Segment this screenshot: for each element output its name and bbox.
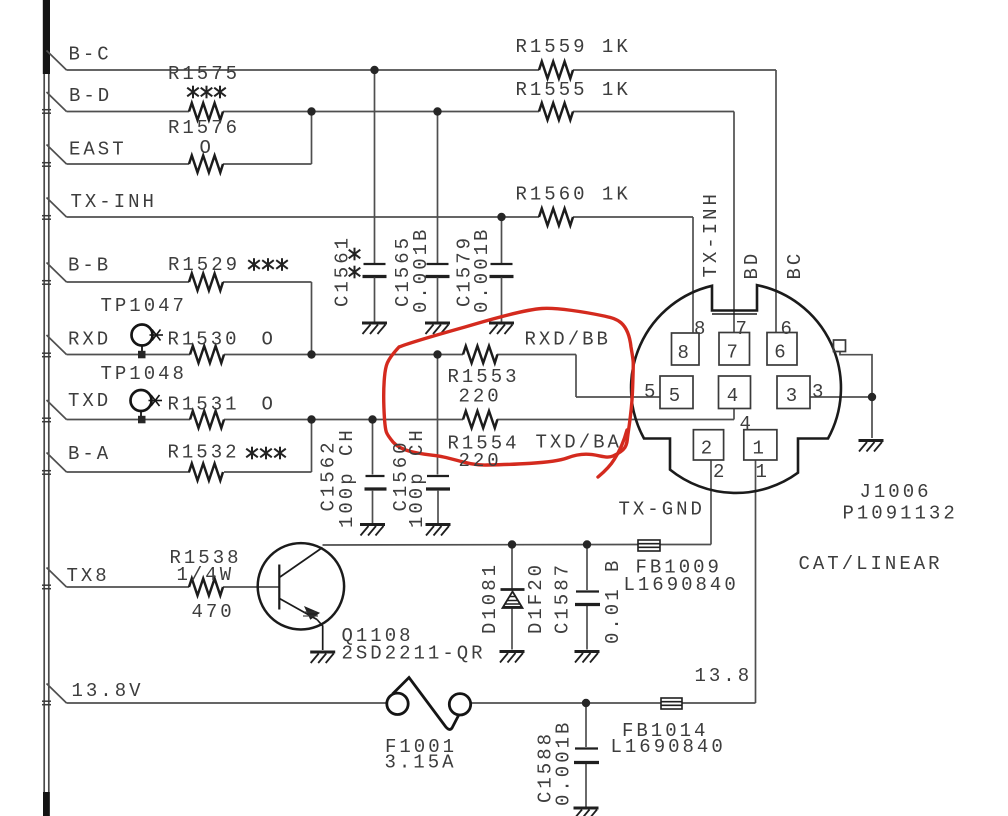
svg-text:R1555 1K: R1555 1K — [516, 79, 631, 101]
svg-text:O: O — [200, 137, 214, 159]
svg-text:B-C: B-C — [69, 44, 112, 66]
svg-text:1: 1 — [756, 461, 770, 483]
svg-text:TX-GND: TX-GND — [619, 499, 705, 521]
svg-text:1: 1 — [753, 438, 767, 460]
svg-text:R1575: R1575 — [168, 63, 240, 85]
svg-text:5: 5 — [644, 381, 658, 403]
svg-text:D1F20: D1F20 — [525, 562, 547, 634]
svg-text:C1587: C1587 — [552, 562, 574, 634]
svg-text:RXD/BB: RXD/BB — [525, 329, 611, 351]
svg-text:4: 4 — [727, 385, 741, 407]
svg-text:R1532: R1532 — [168, 442, 240, 464]
svg-text:13.8V: 13.8V — [72, 680, 144, 702]
svg-text:O: O — [262, 394, 276, 416]
svg-text:8: 8 — [694, 318, 708, 340]
svg-text:7: 7 — [727, 342, 741, 364]
svg-text:220: 220 — [459, 450, 502, 472]
svg-text:2: 2 — [701, 438, 715, 460]
svg-text:100p CH: 100p CH — [406, 427, 428, 528]
svg-text:2: 2 — [713, 461, 727, 483]
svg-text:7: 7 — [736, 318, 750, 340]
svg-text:R1531: R1531 — [168, 394, 240, 416]
svg-text:B-D: B-D — [69, 85, 112, 107]
svg-text:L1690840: L1690840 — [611, 736, 726, 758]
svg-text:3: 3 — [786, 385, 800, 407]
svg-text:5: 5 — [669, 385, 683, 407]
svg-text:1/4W: 1/4W — [177, 564, 235, 586]
svg-text:470: 470 — [192, 601, 235, 623]
svg-text:4: 4 — [740, 413, 754, 435]
svg-text:TX-INH: TX-INH — [71, 191, 157, 213]
svg-text:0.01 B: 0.01 B — [602, 558, 624, 644]
svg-text:0.001B: 0.001B — [471, 227, 493, 313]
svg-text:TP1047: TP1047 — [101, 295, 187, 317]
svg-text:B-B: B-B — [68, 255, 111, 277]
svg-text:8: 8 — [678, 342, 692, 364]
svg-text:3.15A: 3.15A — [385, 752, 457, 774]
svg-text:B-A: B-A — [68, 443, 111, 465]
svg-text:R1529: R1529 — [168, 254, 240, 276]
svg-text:0.001B: 0.001B — [553, 720, 575, 806]
svg-text:D1081: D1081 — [479, 562, 501, 634]
svg-text:BC: BC — [784, 251, 806, 280]
svg-text:6: 6 — [774, 342, 788, 364]
svg-text:P1091132: P1091132 — [843, 503, 958, 525]
svg-text:O: O — [262, 328, 276, 350]
svg-text:TXD/BA: TXD/BA — [536, 432, 622, 454]
svg-text:13.8: 13.8 — [695, 665, 753, 687]
svg-text:TX-INH: TX-INH — [700, 191, 722, 277]
svg-text:R1560 1K: R1560 1K — [516, 184, 631, 206]
svg-text:RXD: RXD — [68, 328, 111, 350]
svg-text:EAST: EAST — [69, 139, 127, 161]
svg-text:3: 3 — [812, 381, 826, 403]
svg-text:L1690840: L1690840 — [624, 574, 739, 596]
svg-text:C1561: C1561 — [332, 235, 354, 307]
svg-text:0.001B: 0.001B — [410, 227, 432, 313]
svg-text:CAT/LINEAR: CAT/LINEAR — [799, 553, 943, 575]
svg-text:R1559 1K: R1559 1K — [516, 36, 631, 58]
svg-text:2SD2211-QR: 2SD2211-QR — [342, 643, 486, 665]
svg-text:100p CH: 100p CH — [336, 427, 358, 528]
svg-text:TX8: TX8 — [67, 565, 110, 587]
svg-text:J1006: J1006 — [860, 481, 932, 503]
svg-text:TP1048: TP1048 — [101, 363, 187, 385]
svg-text:6: 6 — [781, 318, 795, 340]
svg-text:BD: BD — [741, 251, 763, 280]
svg-text:R1530: R1530 — [168, 328, 240, 350]
svg-text:220: 220 — [459, 386, 502, 408]
svg-text:TXD: TXD — [68, 390, 111, 412]
svg-text:R1576: R1576 — [168, 117, 240, 139]
